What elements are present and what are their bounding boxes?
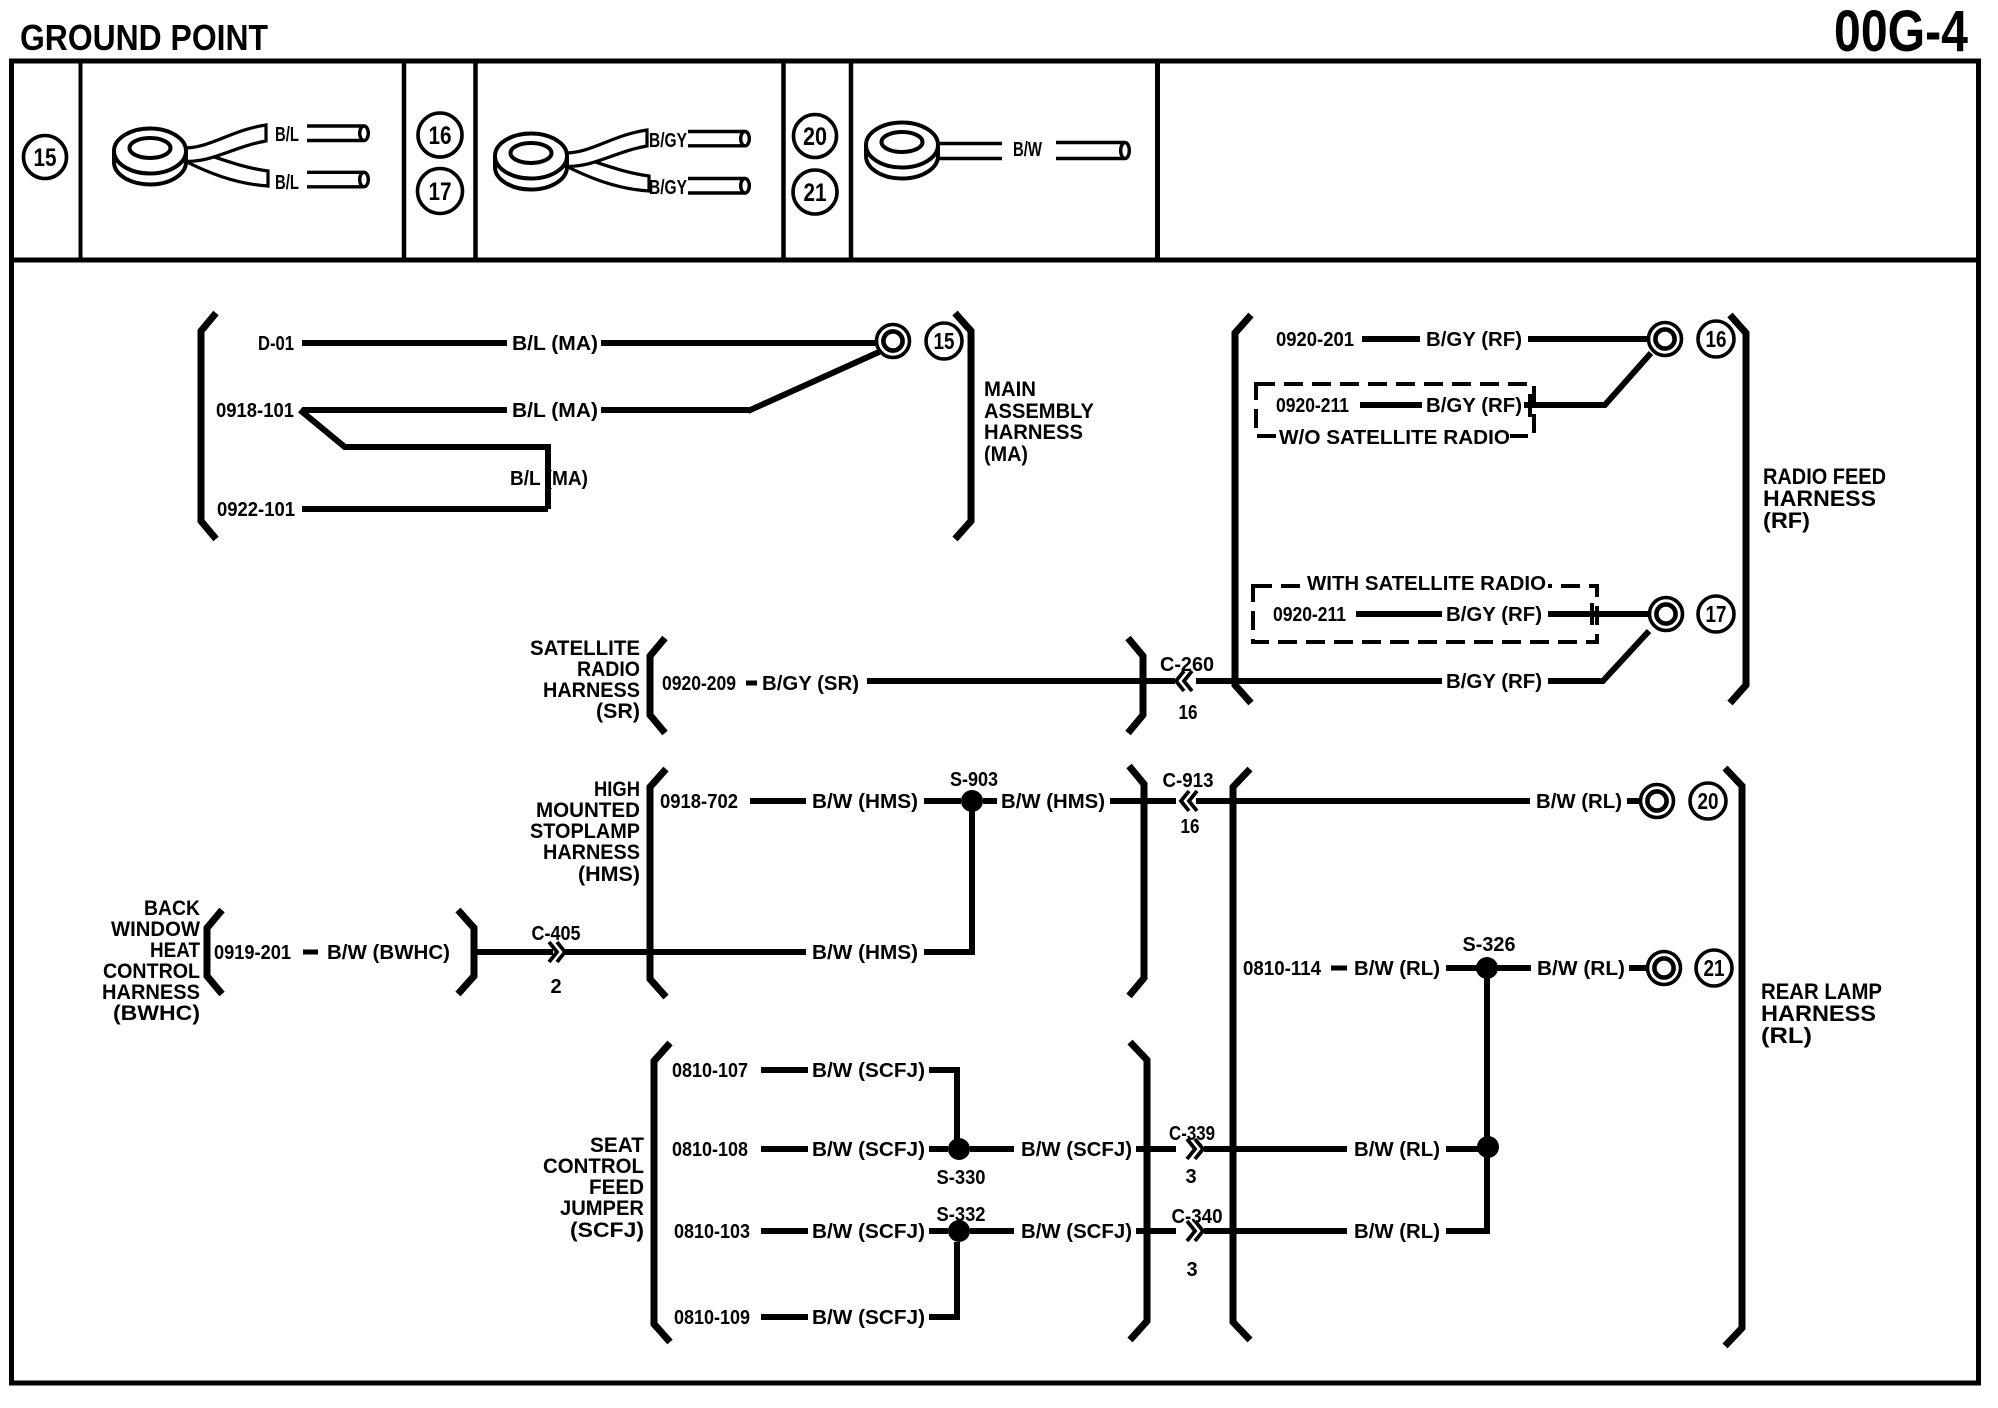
svg-text:0810-107: 0810-107 <box>672 1060 748 1082</box>
wire 0920-211 to label (with satellite) <box>1356 611 1442 617</box>
svg-text:16: 16 <box>429 122 452 150</box>
svg-text:0919-201: 0919-201 <box>214 942 291 964</box>
circled 15 <box>926 323 962 359</box>
dashed option box W/O SATELLITE RADIO <box>1256 384 1534 436</box>
svg-text:STOPLAMP: STOPLAMP <box>530 820 640 843</box>
svg-text:B/W (SCFJ): B/W (SCFJ) <box>1021 1221 1132 1243</box>
svg-text:SEAT: SEAT <box>590 1134 644 1157</box>
MA harness right bracket <box>955 313 971 539</box>
svg-text:D-01: D-01 <box>258 333 294 355</box>
svg-text:B/GY (RF): B/GY (RF) <box>1446 604 1542 626</box>
svg-text:B/W (SCFJ): B/W (SCFJ) <box>812 1307 925 1329</box>
wire 0920-201 to label <box>1362 336 1420 342</box>
RF harness left bracket <box>1235 315 1251 703</box>
branch vertical wire at x548 <box>545 444 551 509</box>
connector C-339 chevrons <box>1195 1139 1203 1159</box>
svg-text:HEAT: HEAT <box>150 939 200 962</box>
wire to ground ring 16 <box>1528 336 1648 342</box>
svg-text:S-903: S-903 <box>950 769 998 791</box>
branch horizontal wire <box>344 444 548 450</box>
wire to connector C-340 <box>1136 1228 1176 1234</box>
vertical wire splice S-332 down to 0810-109 <box>954 1242 960 1317</box>
header cell2 wire band to lower-right <box>181 149 268 186</box>
wire D-01 to B/L (MA) <box>302 340 507 346</box>
dashed option box WITH SATELLITE RADIO <box>1253 586 1597 642</box>
SR harness right bracket <box>1128 638 1143 733</box>
svg-text:MAIN: MAIN <box>984 378 1036 401</box>
wire 0920-211 to label <box>1360 402 1422 408</box>
wire B/L (MA) row 2 right segment <box>601 407 750 413</box>
circled 16 <box>1698 321 1734 357</box>
wire 0810-109 to label <box>761 1314 808 1320</box>
svg-text:B/GY: B/GY <box>649 130 688 152</box>
svg-text:0918-101: 0918-101 <box>216 400 294 422</box>
wire to ground ring 17 <box>1548 611 1648 617</box>
header legend circled 21 <box>793 170 837 214</box>
wire C-405 to B/W (HMS) bottom label <box>563 949 806 955</box>
RL harness left bracket <box>1233 769 1250 1340</box>
svg-text:W/O SATELLITE RADIO: W/O SATELLITE RADIO <box>1279 427 1510 449</box>
svg-text:16: 16 <box>1179 702 1198 724</box>
HMS harness left bracket <box>650 769 666 997</box>
svg-text:0920-209: 0920-209 <box>662 673 736 695</box>
header divider 2 <box>402 61 407 260</box>
header ring terminal with single B/W wire <box>866 156 938 179</box>
svg-text:B/GY (RF): B/GY (RF) <box>1446 671 1542 693</box>
wire into ground ring 20 <box>1627 798 1641 804</box>
svg-text:B/W (SCFJ): B/W (SCFJ) <box>1021 1139 1132 1161</box>
svg-text:B/W (SCFJ): B/W (SCFJ) <box>812 1221 925 1243</box>
svg-text:3: 3 <box>1186 1259 1197 1281</box>
wire to connector C-913 <box>1110 798 1176 804</box>
svg-text:(SR): (SR) <box>596 700 640 723</box>
ground point ring 16 <box>1649 323 1682 356</box>
wire BWHC to connector C-405 <box>477 949 553 955</box>
connector C-340 chevrons <box>1195 1221 1203 1241</box>
svg-text:(RL): (RL) <box>1761 1023 1812 1048</box>
short dash after 0919-201 <box>303 950 318 955</box>
svg-text:B/W (HMS): B/W (HMS) <box>1001 791 1105 813</box>
svg-text:HARNESS: HARNESS <box>543 841 640 864</box>
splice S-903 <box>961 790 983 812</box>
wire 0810-109 to vertical <box>929 1314 960 1320</box>
svg-text:HARNESS: HARNESS <box>984 421 1083 444</box>
svg-text:HARNESS: HARNESS <box>102 981 200 1004</box>
wire B/GY (SR) to connector C-260 <box>867 678 1175 684</box>
wire bottom row to vertical <box>924 949 975 955</box>
splice S-330 <box>948 1138 970 1160</box>
header ring terminal with two B/GY wires <box>495 167 567 190</box>
RF harness right bracket <box>1730 315 1746 703</box>
circled 17 <box>1698 596 1734 632</box>
svg-text:S-330: S-330 <box>937 1167 986 1189</box>
svg-text:15: 15 <box>34 144 57 172</box>
ground point ring 17 <box>1650 598 1683 631</box>
svg-text:B/W (RL): B/W (RL) <box>1536 791 1622 813</box>
header divider 6 <box>1155 61 1160 260</box>
svg-text:(MA): (MA) <box>984 443 1028 466</box>
svg-text:B/L (MA): B/L (MA) <box>512 400 598 422</box>
wire into ground ring 21 <box>1629 965 1646 971</box>
wire to junction on S-326 vertical <box>1446 1146 1478 1152</box>
svg-text:16: 16 <box>1706 326 1727 352</box>
svg-text:21: 21 <box>1704 955 1725 981</box>
svg-text:0922-101: 0922-101 <box>217 499 295 521</box>
wire from splice S-330 <box>970 1146 1014 1152</box>
wire stub top B/GY <box>688 130 745 133</box>
svg-text:16: 16 <box>1181 816 1200 838</box>
svg-text:JUMPER: JUMPER <box>560 1197 644 1220</box>
svg-text:B/L: B/L <box>275 124 299 146</box>
svg-text:B/GY: B/GY <box>649 177 688 199</box>
header cell4 wire band to lower-right <box>562 154 649 191</box>
svg-text:B/W (HMS): B/W (HMS) <box>812 942 918 964</box>
wire C-340 to B/W (RL) label <box>1204 1228 1347 1234</box>
svg-text:B/W (SCFJ): B/W (SCFJ) <box>812 1060 925 1082</box>
svg-text:20: 20 <box>803 123 827 151</box>
header divider 1 <box>79 61 83 260</box>
svg-text:(SCFJ): (SCFJ) <box>570 1219 644 1242</box>
svg-text:CONTROL: CONTROL <box>543 1155 644 1178</box>
header legend circled 20 <box>794 115 837 158</box>
header divider 5 <box>849 61 854 260</box>
wire 0810-107 to label <box>761 1067 808 1073</box>
header cell2 wire band to upper-right (crosses over) <box>182 125 266 161</box>
wire 0810-107 to vertical <box>929 1067 960 1073</box>
svg-text:SATELLITE: SATELLITE <box>530 637 640 660</box>
MA harness left bracket <box>201 313 216 539</box>
BWHC harness left bracket <box>207 910 222 994</box>
ground point ring 15 <box>877 325 910 358</box>
svg-text:RADIO: RADIO <box>577 658 640 681</box>
diagonal wire up to ground ring 17 <box>1602 631 1649 682</box>
svg-text:2: 2 <box>550 976 561 998</box>
svg-text:0810-109: 0810-109 <box>674 1307 750 1329</box>
header legend circled 17 <box>418 169 463 214</box>
diagonal branch down from 0918-101 <box>300 410 346 448</box>
diagonal wire up to ground ring 15 <box>748 352 879 411</box>
header cell4 wire band to upper-right (crosses over) <box>563 130 647 166</box>
svg-text:B/L (MA): B/L (MA) <box>510 468 588 490</box>
svg-text:C-339: C-339 <box>1169 1123 1215 1145</box>
wire from splice S-903 <box>983 798 997 804</box>
svg-text:0920-201: 0920-201 <box>1276 329 1354 351</box>
svg-text:0920-211: 0920-211 <box>1276 395 1349 417</box>
splice S-326 <box>1476 957 1498 979</box>
diagonal wire up to ground ring 16 <box>1604 353 1651 406</box>
svg-text:0810-114: 0810-114 <box>1243 958 1322 980</box>
short dash after 0920-209 <box>746 681 757 686</box>
wire to connector C-339 <box>1136 1146 1176 1152</box>
header band bottom rule <box>9 258 1980 263</box>
svg-text:20: 20 <box>1698 788 1719 814</box>
splice S-332 <box>948 1220 970 1242</box>
wire to splice S-903 <box>924 798 961 804</box>
SCFJ harness left bracket <box>654 1043 670 1342</box>
svg-text:B/W: B/W <box>1013 139 1042 161</box>
connector C-260 chevrons <box>1176 671 1184 691</box>
SCFJ harness right bracket <box>1130 1042 1147 1340</box>
ground point ring 21 <box>1648 952 1681 985</box>
svg-text:17: 17 <box>429 178 452 206</box>
svg-text:B/GY (RF): B/GY (RF) <box>1426 329 1522 351</box>
wire stub bottom B/L <box>307 171 364 174</box>
svg-text:WITH SATELLITE RADIO: WITH SATELLITE RADIO <box>1307 573 1546 595</box>
svg-text:ASSEMBLY: ASSEMBLY <box>984 400 1094 423</box>
svg-text:B/W (HMS): B/W (HMS) <box>812 791 918 813</box>
wire C-340 row to vertical corner <box>1446 1228 1490 1234</box>
wire 0918-101 to B/L (MA) <box>302 407 507 413</box>
SR harness left bracket <box>650 638 665 733</box>
svg-text:(BWHC): (BWHC) <box>113 1002 200 1025</box>
header legend circled 16 <box>418 113 462 157</box>
svg-text:0810-103: 0810-103 <box>674 1221 750 1243</box>
header cell6 wire upper line <box>938 142 1002 145</box>
svg-text:CONTROL: CONTROL <box>103 960 200 983</box>
wire from dashed box to junction <box>1524 402 1606 408</box>
svg-text:(RF): (RF) <box>1763 508 1810 533</box>
junction dot on S-326 vertical (C-339 row) <box>1477 1136 1499 1158</box>
svg-text:0920-211: 0920-211 <box>1273 604 1346 626</box>
wire 0918-702 to label <box>750 798 806 804</box>
wire B/GY (RF) bottom row left segment <box>1196 678 1442 684</box>
wire from splice S-326 <box>1497 965 1531 971</box>
svg-text:B/W (RL): B/W (RL) <box>1537 958 1625 980</box>
vertical wire from splice S-903 <box>969 810 975 955</box>
svg-text:C-405: C-405 <box>532 923 581 945</box>
svg-text:B/L: B/L <box>275 172 299 194</box>
wire stub top B/L <box>307 124 364 127</box>
svg-text:0918-702: 0918-702 <box>660 791 738 813</box>
short dash after 0810-114 <box>1331 966 1347 971</box>
BWHC harness right bracket <box>458 910 474 994</box>
svg-text:B/W (RL): B/W (RL) <box>1354 1139 1440 1161</box>
vertical wire 0810-107 down to splice S-330 <box>954 1070 960 1141</box>
circled 20 <box>1690 783 1726 819</box>
svg-text:15: 15 <box>934 328 955 354</box>
tick crossing dashed box edge (with satellite) <box>1590 603 1594 625</box>
wire 0922-101 to branch <box>302 506 548 512</box>
svg-text:B/W (RL): B/W (RL) <box>1354 958 1440 980</box>
svg-text:S-326: S-326 <box>1463 934 1516 956</box>
wire B/W (RL) to ground ring 20 <box>1196 798 1530 804</box>
header ring terminal (ground eyelet) with two wires <box>114 162 186 184</box>
svg-text:3: 3 <box>1185 1166 1196 1188</box>
wire B/GY (RF) bottom row right segment <box>1548 678 1604 684</box>
tick crossing dashed box edge <box>1528 394 1532 417</box>
wire 0810-108 to label <box>761 1146 808 1152</box>
svg-text:(HMS): (HMS) <box>578 863 640 886</box>
wire B/L (MA) to ground ring 15 <box>601 340 877 346</box>
ground point ring 20 <box>1641 785 1674 818</box>
svg-text:GROUND POINT: GROUND POINT <box>20 17 268 58</box>
svg-text:00G-4: 00G-4 <box>1834 0 1968 64</box>
svg-text:BACK: BACK <box>144 897 200 920</box>
svg-text:C-913: C-913 <box>1163 770 1214 792</box>
header divider 3 <box>473 61 478 260</box>
header cell6 wire lower line <box>938 157 1002 160</box>
connector C-405 chevrons <box>557 942 565 962</box>
wire stub B/W <box>1056 141 1125 144</box>
wire to splice S-330 <box>929 1146 948 1152</box>
circled 21 <box>1696 950 1732 986</box>
wire C-339 to B/W (RL) label <box>1204 1146 1347 1152</box>
header divider 4 <box>781 61 786 260</box>
svg-text:17: 17 <box>1706 601 1727 627</box>
wire from splice S-332 <box>970 1228 1014 1234</box>
wire to splice S-332 <box>929 1228 948 1234</box>
connector C-913 chevrons <box>1181 791 1189 811</box>
wire 0810-103 to label <box>761 1228 808 1234</box>
HMS harness right bracket <box>1129 766 1144 996</box>
svg-text:MOUNTED: MOUNTED <box>536 799 640 822</box>
white mask for WITH SATELLITE RADIO text <box>1305 572 1548 592</box>
svg-text:FEED: FEED <box>589 1176 644 1199</box>
svg-text:B/W (BWHC): B/W (BWHC) <box>327 942 450 964</box>
white mask for W/O SATELLITE RADIO text <box>1277 427 1510 446</box>
svg-text:21: 21 <box>804 179 827 207</box>
svg-text:S-332: S-332 <box>937 1204 986 1226</box>
header legend circled 15 <box>24 136 67 179</box>
svg-text:B/W (RL): B/W (RL) <box>1354 1221 1440 1243</box>
svg-text:0810-108: 0810-108 <box>672 1139 748 1161</box>
vertical wire from splice S-326 <box>1484 977 1490 1231</box>
svg-text:C-260: C-260 <box>1160 654 1214 676</box>
svg-text:B/GY (SR): B/GY (SR) <box>762 673 859 695</box>
svg-text:B/L (MA): B/L (MA) <box>512 333 598 355</box>
svg-text:HARNESS: HARNESS <box>543 679 640 702</box>
svg-text:WINDOW: WINDOW <box>111 918 200 941</box>
svg-text:HIGH: HIGH <box>594 778 640 801</box>
RL harness right bracket <box>1725 768 1742 1346</box>
wire to splice S-326 <box>1446 965 1478 971</box>
svg-text:B/GY (RF): B/GY (RF) <box>1426 395 1522 417</box>
wire stub bottom B/GY <box>688 177 745 180</box>
svg-text:B/W (SCFJ): B/W (SCFJ) <box>812 1139 925 1161</box>
